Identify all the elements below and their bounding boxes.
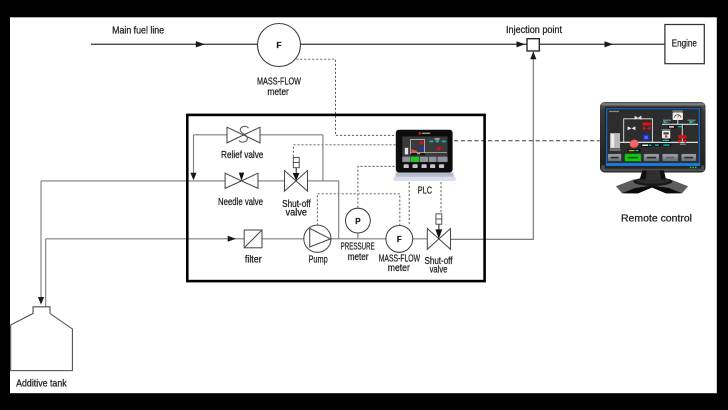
- wire dosing return line to injection riser: [451, 238, 534, 240]
- wire main fuel line left segment: [91, 43, 258, 45]
- svg-text:Injection point: Injection point: [506, 25, 562, 36]
- arrow up into injection point: [530, 52, 536, 60]
- svg-text:valve: valve: [286, 207, 308, 218]
- shut-off valve SV2: [427, 229, 450, 250]
- svg-text:meter: meter: [267, 87, 289, 98]
- svg-text:F: F: [276, 40, 281, 50]
- wire additive suction line: [46, 238, 245, 240]
- arrow down to needle line: [190, 173, 196, 181]
- relief valve RV1: [227, 127, 260, 143]
- wire dashed signal pump to mass-flow meter F2: [317, 194, 400, 226]
- shut-off valve SV2 solenoid: [436, 214, 442, 224]
- wire dashed signal PLC to remote control: [454, 140, 600, 142]
- svg-text:Additive tank: Additive tank: [16, 378, 67, 389]
- shut-off valve SV1: [285, 171, 308, 192]
- wire tank suction riser: [45, 239, 47, 307]
- remote control monitor: [600, 102, 706, 193]
- additive tank: [11, 307, 73, 371]
- wire main fuel line to engine: [539, 43, 665, 45]
- wire dashed signal PLC to shut-off valve 2: [440, 178, 442, 214]
- wire dashed signal PLC to mass-flow meter F2: [408, 178, 410, 226]
- svg-text:P: P: [355, 217, 361, 226]
- node injection point: [527, 39, 539, 51]
- svg-text:meter: meter: [348, 252, 369, 263]
- dosing unit box: [187, 115, 484, 281]
- wire dashed signal shut-off valve 1 to PLC: [293, 145, 396, 157]
- arrow on main fuel line: [196, 41, 205, 47]
- svg-text:meter: meter: [388, 263, 411, 274]
- pressure meter stem: [357, 233, 359, 239]
- wire tank return line: [40, 181, 42, 299]
- shut-off valve SV2 actuator arrow: [438, 224, 440, 230]
- shut-off valve SV1 solenoid: [293, 157, 299, 167]
- wire additive feed line (needle valve line): [41, 180, 323, 182]
- mass-flow meter F2: [386, 226, 413, 253]
- needle valve NV1: [225, 173, 258, 188]
- needle valve stem: [239, 173, 244, 181]
- svg-text:Pump: Pump: [309, 255, 328, 266]
- wire dashed signal pressure meter to PLC: [358, 166, 398, 207]
- wire relief valve left riser: [193, 135, 195, 173]
- wire relief dashed signal from mass-flow meter F1: [296, 59, 396, 135]
- pressure meter PM1: [346, 208, 371, 233]
- wire pump suction / discharge line: [262, 238, 427, 240]
- arrow before injection point: [517, 41, 526, 47]
- svg-text:valve: valve: [430, 265, 448, 276]
- engine box: [665, 25, 704, 64]
- svg-text:Engine: Engine: [672, 38, 697, 49]
- shut-off valve SV1 actuator arrow: [295, 168, 297, 174]
- svg-text:PLC: PLC: [418, 185, 432, 196]
- pump P1: [304, 225, 331, 252]
- relief valve spring: [239, 126, 249, 142]
- svg-text:Relief valve: Relief valve: [221, 150, 263, 161]
- mass-flow meter F1 (main line): [258, 24, 301, 67]
- wire relief valve line: [194, 134, 323, 136]
- svg-text:F: F: [397, 235, 402, 244]
- PLC panel: [394, 130, 456, 181]
- wire relief right riser down to pump discharge: [323, 135, 339, 239]
- svg-text:filter: filter: [245, 254, 262, 265]
- svg-text:PRESSURE: PRESSURE: [341, 241, 376, 252]
- arrow before engine: [605, 41, 614, 47]
- arrow into additive tank: [38, 297, 44, 305]
- filter F: [244, 230, 262, 248]
- svg-text:Needle valve: Needle valve: [218, 197, 263, 208]
- svg-text:Remote control: Remote control: [621, 214, 692, 225]
- svg-text:Main fuel line: Main fuel line: [112, 26, 164, 37]
- wire main fuel line middle segment: [301, 43, 528, 45]
- arrow into filter: [228, 236, 236, 242]
- wire injection vertical: [532, 51, 534, 239]
